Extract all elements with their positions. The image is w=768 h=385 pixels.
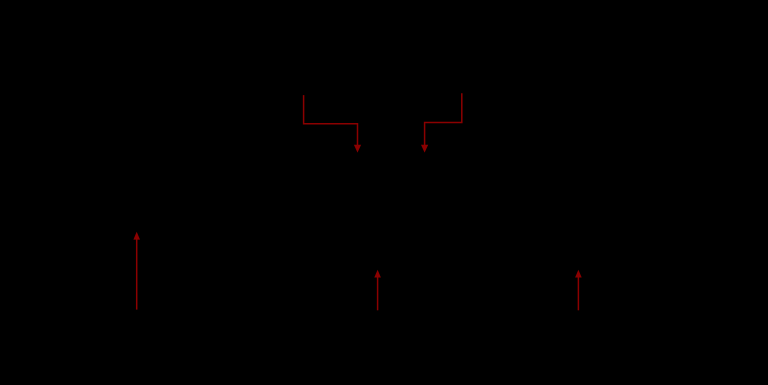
node B — [518, 178, 523, 183]
transistor Q1 — [378, 180, 404, 208]
ground — [368, 290, 388, 310]
wire top rail — [160, 109, 620, 111]
wire output node — [520, 180, 578, 240]
annotation arrow to capacitor C1 (elbow, points down) — [304, 95, 362, 153]
resistor R3 (emitter) — [373, 208, 383, 290]
svg-text:Vin: Vin — [100, 328, 119, 343]
annotation arrow to resistor R4 (points up) — [575, 270, 582, 311]
svg-text:R4: R4 — [545, 278, 562, 293]
svg-text:C2: C2 — [425, 148, 442, 163]
node A — [298, 178, 303, 183]
resistor R2 — [295, 240, 305, 330]
svg-text:C1: C1 — [340, 148, 357, 163]
annotation arrow to capacitor C2 (elbow, points down) — [421, 93, 462, 152]
resistor R1 — [295, 110, 305, 190]
capacitor C1 — [137, 166, 391, 194]
AC source V1 — [121, 180, 153, 330]
wire bottom rail — [160, 329, 620, 331]
annotation arrow to source V1 (points up) — [133, 232, 140, 310]
capacitor C2 — [420, 166, 520, 194]
annotation arrow to resistor R3 (points up) — [374, 270, 381, 311]
wire collector — [404, 180, 520, 220]
svg-text:R3: R3 — [345, 243, 362, 258]
resistor R4 (load) — [573, 240, 583, 330]
